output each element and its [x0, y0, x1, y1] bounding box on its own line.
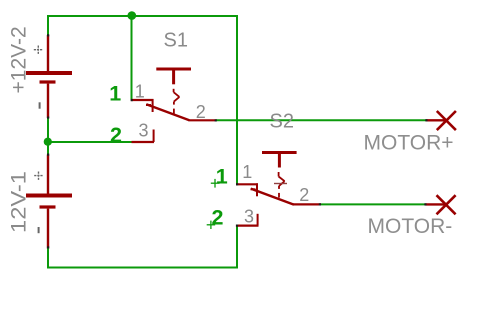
wire battery2 minus to mid junction: [47, 118, 49, 143]
net label 1 origin cross: [211, 179, 220, 188]
svg-text:S2: S2: [270, 111, 294, 133]
wire net 1: MOTOR+ (S1 pin2 to X): [216, 119, 427, 121]
wire S1 pin3 to mid junction: [47, 141, 132, 143]
wire net 2: MOTOR- (S2 pin2 to X): [320, 203, 426, 205]
svg-text:+12V-2: +12V-2: [8, 26, 31, 93]
svg-text:3: 3: [244, 206, 254, 226]
switch S1: [131, 69, 217, 142]
wire S2 pin3 drop: [236, 226, 238, 269]
battery B1 origin cross: [34, 46, 43, 55]
svg-text:S1: S1: [164, 30, 188, 52]
svg-text:1: 1: [109, 81, 121, 105]
wire trunk vertical (top wire down to S2 pin1): [236, 15, 238, 184]
wire top horizontal (battery+ to trunk): [47, 15, 238, 17]
net label 2 origin cross: [207, 221, 216, 229]
wire bottom horizontal: [47, 267, 238, 269]
pin end dots: [47, 34, 428, 248]
svg-text:2: 2: [110, 123, 122, 147]
battery B2 minus mark: [38, 227, 40, 233]
wire battery1 minus down: [47, 248, 49, 269]
switch S2 origin cross: [274, 183, 287, 185]
wire mid junction to battery1 plus: [47, 141, 49, 155]
battery B2 12V-1: [26, 155, 72, 249]
svg-text:1: 1: [135, 82, 145, 102]
svg-text:MOTOR-: MOTOR-: [368, 215, 453, 238]
battery B1 12V-2: [26, 35, 72, 118]
junction dot mid: [44, 138, 52, 146]
svg-text:12V-1: 12V-1: [7, 171, 31, 233]
svg-text:2: 2: [212, 205, 224, 229]
wire S1 drop (junction to S1 pin1): [131, 15, 133, 100]
svg-text:1: 1: [216, 164, 228, 188]
MOTOR- terminal X: [425, 195, 455, 214]
battery B1 minus mark: [39, 102, 41, 108]
wire left rail top (to battery 12V-2 plus lead): [47, 15, 49, 36]
switch S2: [236, 153, 321, 226]
MOTOR+ terminal X: [426, 111, 456, 130]
svg-text:1: 1: [242, 162, 252, 182]
battery B2 origin cross: [34, 172, 43, 181]
svg-text:2: 2: [299, 185, 309, 205]
svg-text:3: 3: [139, 121, 149, 141]
svg-text:2: 2: [196, 102, 206, 122]
svg-text:MOTOR+: MOTOR+: [364, 132, 454, 155]
junction dot top: [128, 11, 137, 20]
